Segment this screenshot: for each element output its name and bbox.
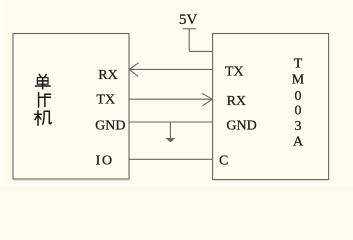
svg-text:T: T [294, 56, 303, 71]
svg-text:5V: 5V [179, 12, 198, 28]
ground arrowhead [165, 138, 175, 142]
label TM003A (vertical) [292, 56, 305, 149]
svg-text:RX: RX [98, 68, 117, 83]
wire RX-TX [129, 68, 213, 70]
module block TM003A [213, 34, 329, 180]
svg-text:GND: GND [95, 119, 125, 134]
power wire horizontal to module [189, 50, 213, 52]
label 片 (MCU name char 2) [39, 93, 51, 107]
svg-text:C: C [219, 154, 228, 169]
arrowhead into module RX [202, 93, 212, 105]
svg-text:RX: RX [227, 94, 246, 109]
MCU block (单片机) [13, 34, 129, 180]
ground stub [169, 122, 171, 139]
svg-text:A: A [293, 134, 304, 149]
label 单 (MCU name char 1) [35, 74, 50, 88]
svg-text:0: 0 [295, 89, 302, 104]
scan artifact: white left edge [0, 0, 3, 186]
svg-text:M: M [292, 72, 305, 87]
power rail tick [183, 28, 197, 30]
scan artifact: light echo under MCU box [14, 180, 129, 182]
svg-text:3: 3 [295, 119, 302, 134]
arrowhead into MCU RX [129, 63, 138, 77]
svg-text:0: 0 [295, 104, 302, 119]
svg-text:TX: TX [225, 65, 244, 80]
svg-text:GND: GND [226, 119, 256, 134]
svg-text:TX: TX [96, 93, 115, 108]
svg-text:IO: IO [96, 154, 114, 169]
wire GND-GND [129, 121, 213, 123]
label 机 (MCU name char 3) [35, 111, 52, 126]
wire TX-RX [129, 98, 213, 100]
power wire vertical [188, 29, 190, 52]
scan artifact: white bottom edge [0, 184, 353, 186]
scan artifact: light echo under module box [214, 180, 329, 182]
wire IO-C [129, 158, 213, 160]
